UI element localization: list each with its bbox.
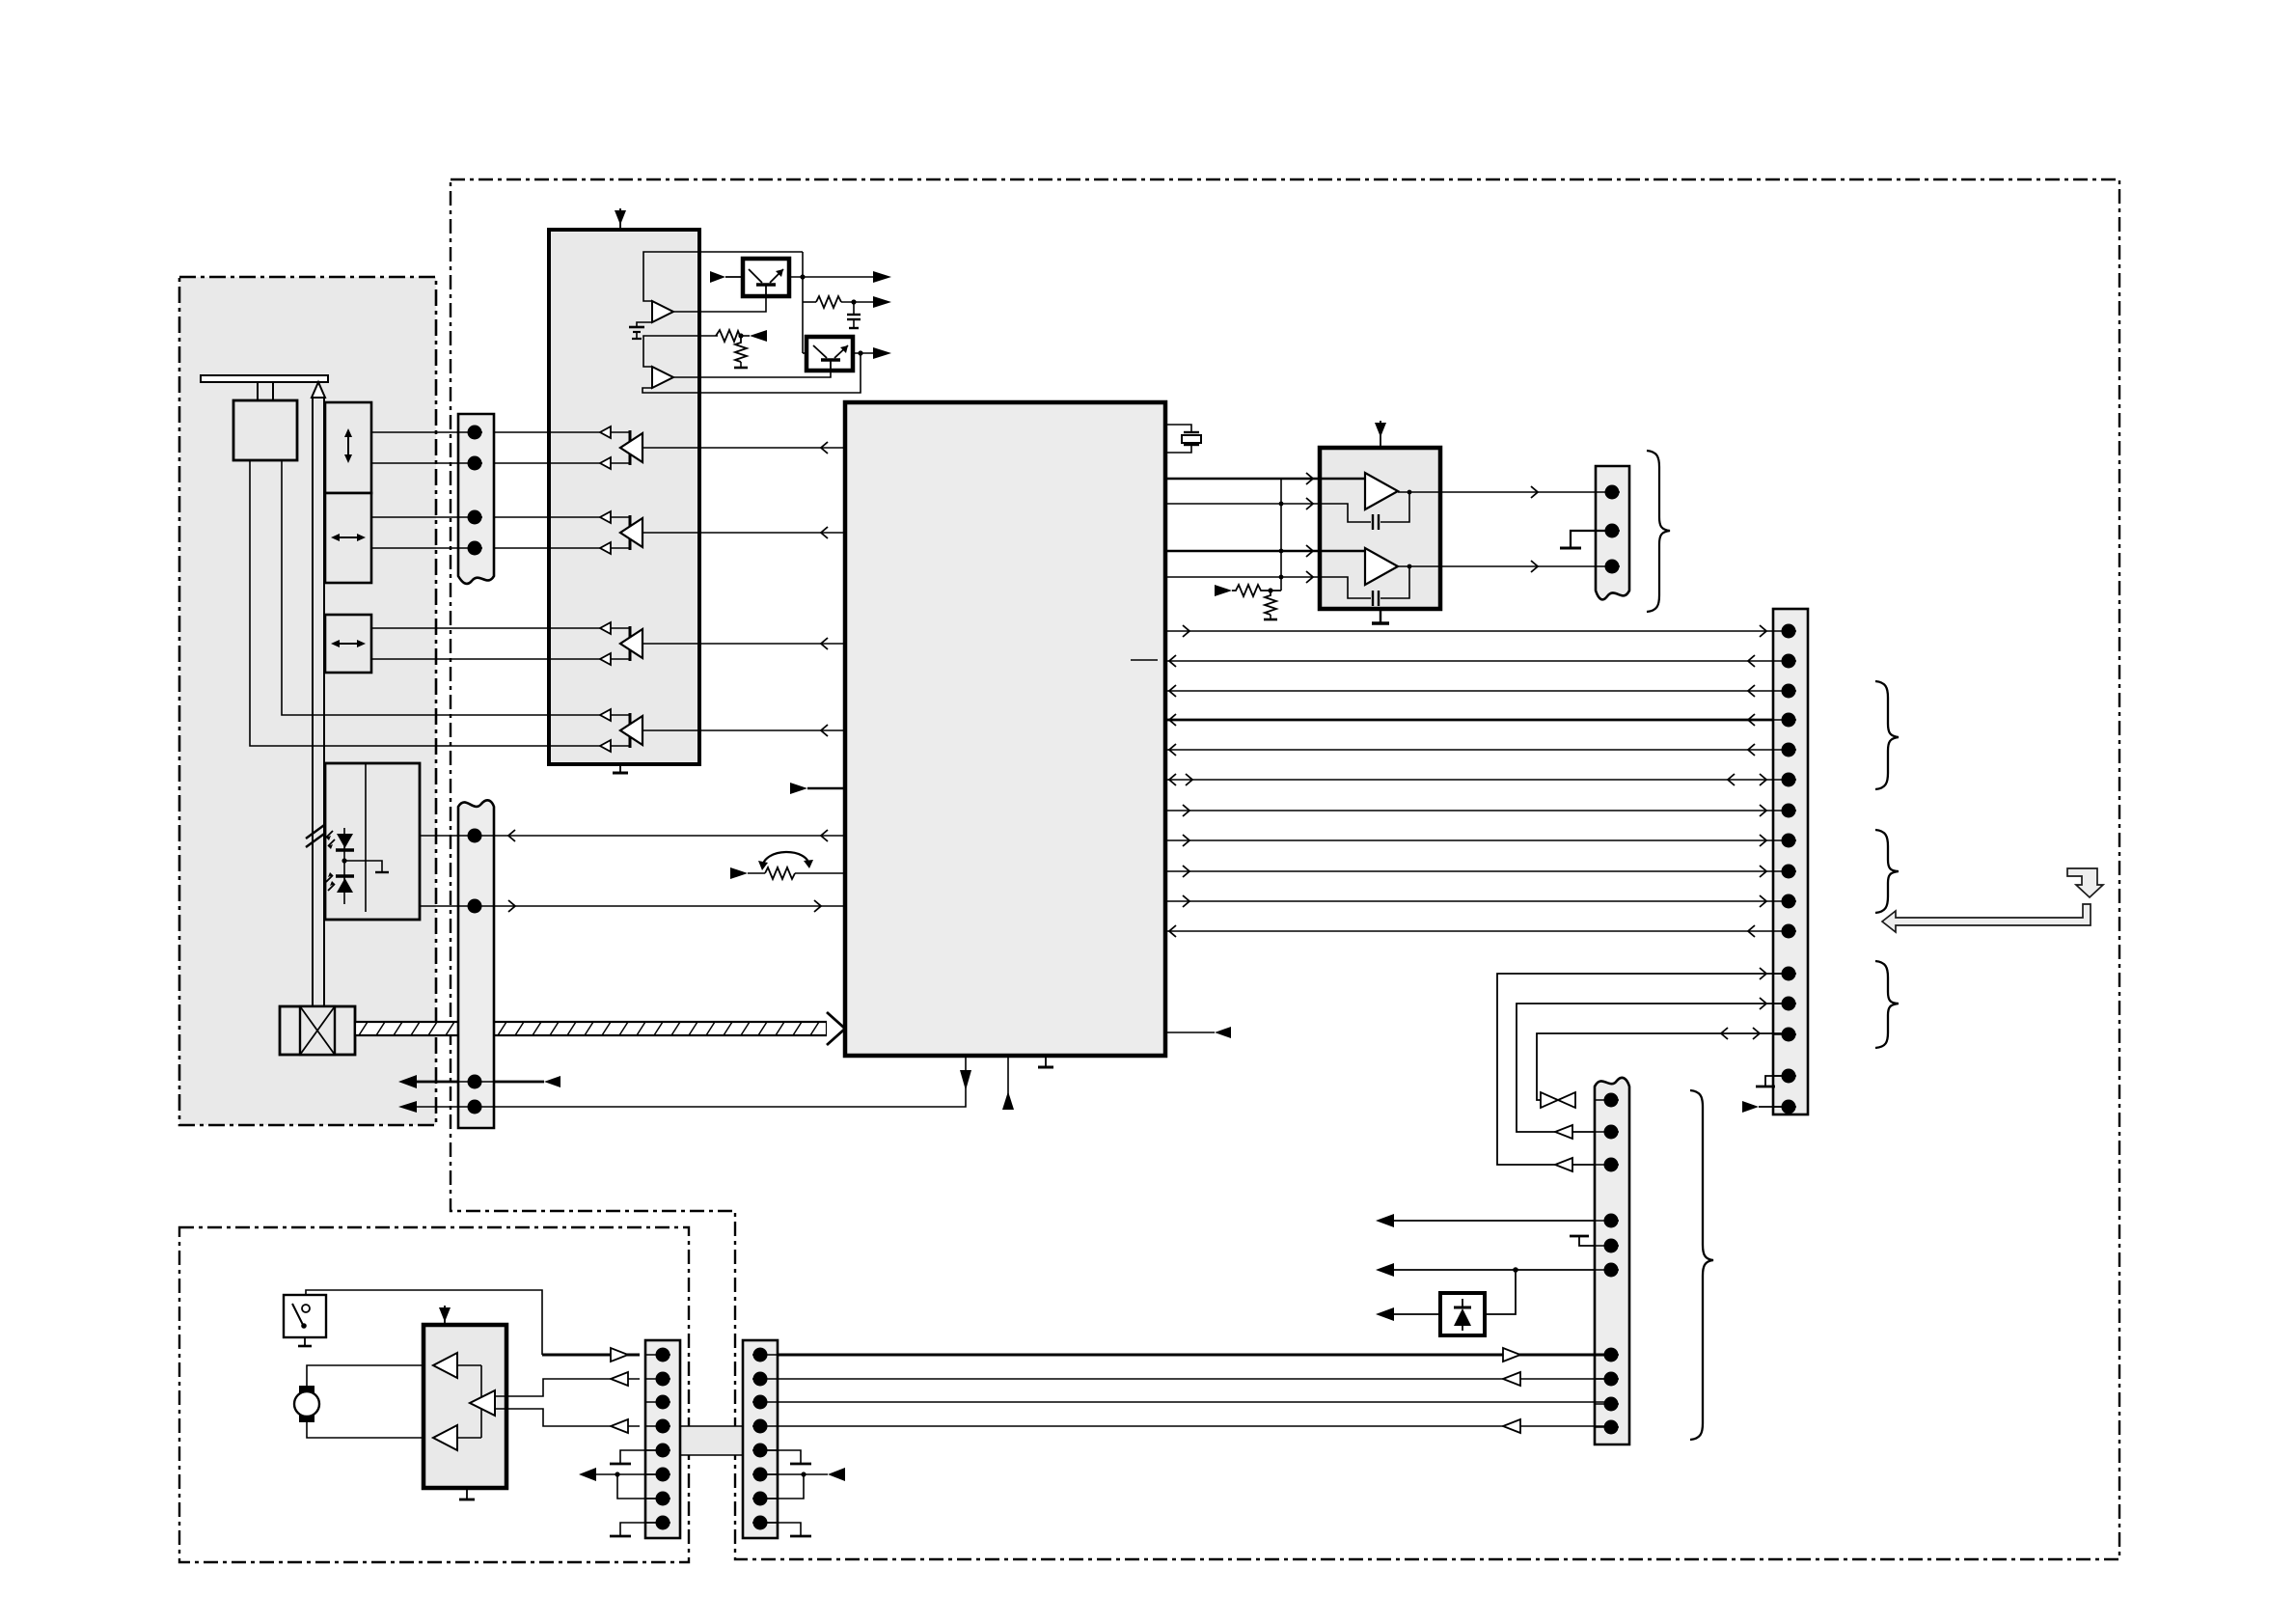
ground CN7 pin8 bbox=[767, 1523, 811, 1536]
wire A1 out to Q1 base bbox=[673, 296, 766, 312]
arrow ch1 at IC bbox=[821, 442, 828, 454]
wire tracking+ bbox=[371, 516, 630, 518]
arrow link sig3 bbox=[1503, 1419, 1520, 1433]
wire audio R out bbox=[1398, 565, 1605, 567]
wire focus- bbox=[371, 462, 630, 464]
focus actuator coil bbox=[325, 402, 371, 493]
arrow link sig1 bbox=[1503, 1372, 1520, 1386]
arrow Q1 input bbox=[710, 271, 743, 283]
ground CN6 pin8 bbox=[610, 1523, 656, 1536]
wire LD power bbox=[420, 835, 845, 837]
bottom-left motor unit dash-dot region bbox=[179, 1227, 689, 1562]
wire bus2 bbox=[1165, 660, 1783, 662]
wire PD monitor bbox=[420, 905, 845, 907]
wire spindle motor - to driver ch4 bbox=[250, 460, 630, 746]
wire link power bbox=[778, 1354, 1604, 1357]
arrow link power bbox=[1503, 1348, 1520, 1362]
wire ch1 out bbox=[642, 447, 845, 449]
arrow bus8 pair bbox=[1183, 835, 1766, 846]
arrow PD line at IC bbox=[814, 900, 821, 912]
connector CN1 pickup bbox=[458, 414, 494, 584]
wire sled+ bbox=[371, 627, 630, 629]
U2 Vcc pin bbox=[615, 208, 626, 230]
op-amp U3A bbox=[1320, 473, 1398, 509]
buffer U4A bbox=[433, 1353, 481, 1378]
connector CN3 audio bbox=[1596, 466, 1629, 599]
arrow bus7 pair bbox=[1183, 805, 1766, 816]
bowtie mute symbol bbox=[1541, 1092, 1575, 1108]
wire U4B in1 bbox=[495, 1379, 640, 1396]
buffer U4C bbox=[433, 1425, 481, 1450]
U1 internal pin tick bbox=[1131, 659, 1158, 661]
wire bias rail bbox=[1280, 479, 1282, 591]
arrow CN4 pin16 bbox=[1742, 1101, 1782, 1113]
wire bus5 bbox=[1165, 749, 1783, 751]
arrow bus4 pair bbox=[1169, 714, 1755, 726]
wire audio L out bbox=[1398, 491, 1605, 493]
pickup mechanism shaded region bbox=[179, 277, 436, 1125]
headphone amp U3 bbox=[1320, 448, 1440, 609]
wire CN7 pin6 out bbox=[767, 1468, 845, 1481]
brace CN4 group1 bbox=[1875, 681, 1899, 789]
wire S1 to CN6 power bbox=[306, 1290, 542, 1355]
disc platter bbox=[201, 375, 328, 382]
flex ribbon cable bbox=[355, 1012, 845, 1045]
U2 channel 1 focus driver bbox=[600, 426, 642, 469]
wire CN6 pin7 join bbox=[617, 1474, 656, 1499]
resistor R1 bbox=[803, 296, 873, 308]
wire bus7 bbox=[1165, 810, 1783, 811]
servo DSP IC U1 bbox=[845, 402, 1165, 1056]
wire Q1 collector out bbox=[789, 276, 873, 278]
node R2-R3 bbox=[738, 333, 743, 338]
wire CN5 pin4 out bbox=[1376, 1214, 1604, 1227]
U2 channel 4 spindle driver bbox=[600, 709, 642, 752]
arrow bias in bbox=[750, 330, 767, 342]
resistor R5 to ground bbox=[1264, 591, 1277, 619]
flow arrow left bbox=[1882, 904, 2091, 932]
arrow DAC L ref bbox=[1306, 498, 1313, 509]
wire DAC L ref bbox=[1165, 503, 1348, 505]
ground CN5 pin5 bbox=[1570, 1236, 1604, 1246]
arrow control in bbox=[1215, 1027, 1231, 1038]
arrow audio L bbox=[1531, 486, 1538, 498]
wire CN5 pin3 riser bbox=[1497, 974, 1783, 1165]
U2 channel 2 tracking driver bbox=[600, 511, 642, 554]
resistor R4 bbox=[1232, 585, 1281, 596]
monitor photodiode PD bbox=[326, 872, 354, 893]
wire APC sense vertical bbox=[802, 252, 804, 353]
wire into Q2 bbox=[803, 352, 806, 354]
brace CN5 bbox=[1690, 1090, 1713, 1440]
node bias taps bbox=[1279, 502, 1284, 580]
wire bus9 bbox=[1165, 870, 1783, 872]
connector CN5 bbox=[1595, 1078, 1629, 1444]
wire bus1 bbox=[1165, 630, 1783, 632]
ground CN4 pin15 bbox=[1756, 1076, 1782, 1087]
resistor R6 focus gain bbox=[730, 867, 845, 879]
ground CN6 pin5 bbox=[610, 1450, 656, 1464]
wire CN5 pin2 riser bbox=[1517, 1004, 1783, 1132]
arrow bus12 bbox=[1760, 968, 1766, 979]
arrow bus9 pair bbox=[1183, 866, 1766, 877]
arrow bus10 pair bbox=[1183, 895, 1766, 907]
wire CN7 pin7 join bbox=[767, 1474, 804, 1499]
wire return A bbox=[398, 1075, 560, 1088]
wire sled- bbox=[371, 658, 630, 660]
LD case stub bbox=[344, 861, 389, 872]
resistor R3 bbox=[734, 336, 748, 368]
capacitor C1 on A1 input bbox=[629, 322, 652, 339]
connector CN6 bbox=[645, 1340, 680, 1538]
arrow pin2 left bbox=[1555, 1125, 1572, 1139]
node Q1 out bbox=[800, 274, 805, 279]
wire M3- bbox=[307, 1422, 433, 1438]
wire A2 out to Q2 base bbox=[673, 371, 831, 377]
sled motor M2 bbox=[280, 1006, 355, 1055]
arrow Q2 drive out bbox=[873, 347, 891, 359]
U2 channel 3 sled driver bbox=[600, 622, 642, 665]
laser diode LD bbox=[326, 831, 354, 850]
ground CN7 pin5 bbox=[767, 1450, 811, 1464]
connector CN2 laser bbox=[458, 800, 494, 1128]
arrow bus5 pair bbox=[1169, 744, 1755, 756]
wire M3+ bbox=[307, 1365, 433, 1386]
arrow bus14 bidir bbox=[1721, 1028, 1760, 1039]
arrow bias feed bbox=[1215, 585, 1232, 596]
U3 ground bbox=[1372, 609, 1389, 623]
brace CN4 group2 bbox=[1875, 830, 1899, 913]
wire bus3 bbox=[1165, 690, 1783, 692]
wire return B bbox=[398, 1056, 971, 1113]
arrow CN6 power bbox=[611, 1348, 628, 1362]
arrow bus11 pair bbox=[1169, 925, 1755, 937]
U4 ground bbox=[459, 1488, 475, 1499]
wire D1 out bbox=[1376, 1307, 1440, 1321]
wire U4 bridge bbox=[480, 1365, 482, 1438]
board link band bbox=[680, 1426, 743, 1455]
tracking actuator coil bbox=[325, 493, 371, 583]
resistor R2 bbox=[716, 330, 750, 342]
laser diode / photodiode unit bbox=[325, 763, 420, 920]
node U3B out bbox=[1408, 564, 1412, 569]
op-amp A1 APC bbox=[643, 252, 803, 322]
arrow bus6 quad bbox=[1169, 774, 1766, 785]
brace audio bbox=[1647, 451, 1670, 612]
rail break mark bbox=[306, 820, 331, 847]
arrow PD line right bbox=[508, 900, 515, 912]
wire U1 control stub bbox=[1165, 1032, 1215, 1033]
wire DAC L to amp bbox=[1165, 478, 1320, 481]
connector CN4 main bbox=[1773, 609, 1808, 1114]
crystal X1 bbox=[1165, 425, 1201, 453]
node U3A out bbox=[1408, 490, 1412, 495]
arrow pin3 left bbox=[1555, 1158, 1572, 1171]
U1 bottom pin arrow up bbox=[1002, 1056, 1014, 1110]
wire bus8 bbox=[1165, 839, 1783, 841]
node Q2 out bbox=[858, 350, 862, 355]
wire bus6 bidir bbox=[1165, 779, 1783, 781]
ground audio common bbox=[1560, 531, 1605, 548]
brace CN4 group3 bbox=[1875, 961, 1899, 1048]
zener diode D1 bbox=[1440, 1293, 1485, 1335]
capacitor C2 bbox=[847, 302, 861, 328]
transistor Q1 bbox=[743, 259, 789, 296]
buffer U4B bbox=[470, 1390, 495, 1416]
arrow ch3 at IC bbox=[821, 638, 828, 649]
wire ch4 out bbox=[642, 729, 845, 731]
wire CN5 pin1 riser bbox=[1537, 1033, 1783, 1100]
wire link sig1 bbox=[778, 1378, 1604, 1380]
wire link sig3 bbox=[778, 1425, 1604, 1427]
arrow DAC R ref bbox=[1306, 571, 1313, 583]
arrow DAC L bbox=[1306, 473, 1313, 484]
wire bus11 bbox=[1165, 930, 1783, 932]
driver IC U2 bbox=[549, 230, 699, 764]
op-amp A2 bbox=[643, 336, 718, 388]
flow arrow down bbox=[2067, 868, 2103, 897]
wire focus+ bbox=[371, 431, 630, 433]
arrow U4B in2 bbox=[611, 1419, 628, 1433]
wire CN5 pin6 out bbox=[1376, 1263, 1604, 1314]
wire spindle motor + to driver ch4 bbox=[282, 460, 630, 715]
connector CN7 bbox=[743, 1340, 778, 1538]
node LD common bbox=[342, 858, 346, 863]
node R1-C2 bbox=[851, 299, 856, 304]
wire link sig2 bbox=[778, 1401, 1604, 1403]
wire CN6 power thick bbox=[542, 1354, 640, 1357]
wire DAC R ref bbox=[1165, 576, 1348, 578]
wire bus4 data bbox=[1165, 719, 1783, 722]
op-amp U3B bbox=[1320, 548, 1398, 585]
sled feed block bbox=[325, 615, 371, 673]
wire bus10 bbox=[1165, 900, 1783, 902]
spindle shaft bbox=[258, 382, 273, 400]
wire CN6 pin6 out bbox=[579, 1468, 656, 1481]
arrow bus1 pair bbox=[1183, 625, 1766, 637]
motor M3 bbox=[294, 1386, 319, 1422]
wire ch2 out bbox=[642, 532, 845, 534]
wire tracking- bbox=[371, 547, 630, 549]
arrow monitor out bbox=[873, 296, 891, 308]
arrow bus13 bbox=[1760, 998, 1766, 1009]
pickup sled rail bbox=[312, 382, 325, 1006]
main board dash-dot border bbox=[451, 179, 2119, 1559]
arrow ch2 at IC bbox=[821, 527, 828, 538]
spindle motor M1 bbox=[233, 400, 297, 460]
wire Q2 feedback to A2 bbox=[642, 353, 861, 393]
wire ch inputs inside U2 bbox=[549, 432, 630, 746]
capacitor C3 feedback U3A bbox=[1320, 492, 1409, 530]
wire ch3 out bbox=[642, 643, 845, 645]
arrow LD line at IC bbox=[821, 830, 828, 841]
arrow bus2 pair bbox=[1169, 655, 1755, 667]
node bias bbox=[1268, 588, 1272, 592]
transistor Q2 bbox=[806, 337, 853, 371]
arrow U4B in1 bbox=[611, 1372, 628, 1386]
wire DAC R to amp bbox=[1165, 550, 1320, 553]
capacitor C4 feedback U3B bbox=[1320, 567, 1409, 606]
adjust arc bbox=[758, 852, 813, 870]
arrow ch4 at IC bbox=[821, 725, 828, 736]
wire U4B in2 bbox=[495, 1409, 640, 1426]
arrow audio R bbox=[1531, 561, 1538, 572]
ground S1 bbox=[298, 1337, 312, 1346]
motor driver U4 bbox=[424, 1325, 506, 1488]
arrow LD drive out bbox=[873, 271, 891, 283]
U3 Vcc pin bbox=[1375, 421, 1386, 448]
wire Q2 out bbox=[853, 352, 873, 354]
arrow DAC R bbox=[1306, 545, 1313, 557]
arrow LD line left bbox=[508, 830, 515, 841]
U4 Vcc pin bbox=[439, 1306, 451, 1325]
U1 ground bbox=[1038, 1056, 1053, 1067]
arrow bus3 pair bbox=[1169, 685, 1755, 697]
arrow U1 enable in bbox=[790, 783, 845, 794]
switch S1 bbox=[284, 1295, 326, 1337]
U2 ground bbox=[613, 764, 628, 773]
